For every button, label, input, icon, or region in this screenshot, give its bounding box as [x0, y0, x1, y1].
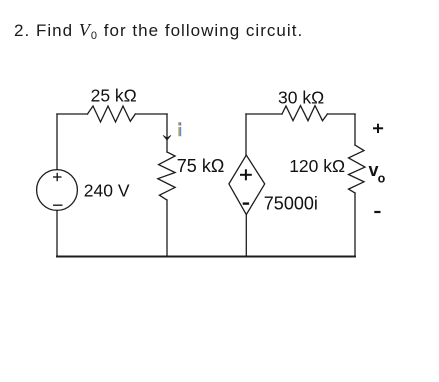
wire diamond bottom to bottom rail — [245, 215, 247, 257]
wire right-loop top left segment — [246, 113, 282, 115]
plus sign of 240 V source — [53, 173, 62, 181]
wire 30 kohm to top-right corner — [327, 113, 355, 115]
svg-text:25 kΩ: 25 kΩ — [91, 85, 137, 105]
wire right vertical to 120 kohm — [354, 114, 356, 145]
wire 75 kohm down to bottom rail — [166, 200, 168, 257]
resistor 25 kohm zigzag — [88, 106, 136, 122]
minus sign of 240 V source — [53, 204, 63, 206]
svg-text:75000i: 75000i — [264, 194, 318, 214]
label vo — [369, 160, 386, 186]
wire top-left horizontal segment — [57, 113, 88, 115]
svg-text:o: o — [378, 171, 386, 185]
label current i — [178, 122, 181, 136]
wire source to bottom rail — [56, 210, 58, 256]
wire left vertical down to source — [56, 114, 58, 170]
resistor 30 kohm zigzag — [282, 106, 327, 121]
wire 120 kohm to bottom rail — [354, 193, 356, 257]
wire bottom rail — [57, 256, 355, 258]
minus sign of vo polarity — [374, 211, 380, 213]
svg-text:75 kΩ: 75 kΩ — [177, 156, 224, 176]
voltage source Vs 240 V circle — [37, 170, 78, 211]
title — [14, 20, 303, 41]
wire from 25 kohm to node A — [135, 113, 167, 115]
svg-text:120 kΩ: 120 kΩ — [289, 156, 345, 176]
minus sign of dependent source — [243, 202, 249, 204]
current arrow i head — [163, 135, 171, 140]
plus sign of vo polarity — [373, 124, 383, 133]
wire node A down to 75 kohm — [166, 114, 168, 152]
resistor 75 kohm zigzag — [158, 152, 175, 200]
svg-text:30 kΩ: 30 kΩ — [278, 87, 324, 107]
dependent source diamond 75000i — [229, 155, 265, 215]
resistor 120 kohm zigzag — [349, 145, 366, 193]
wire diamond top to top rail — [245, 114, 247, 155]
svg-text:240 V: 240 V — [84, 180, 130, 200]
plus sign of dependent source — [240, 169, 252, 180]
